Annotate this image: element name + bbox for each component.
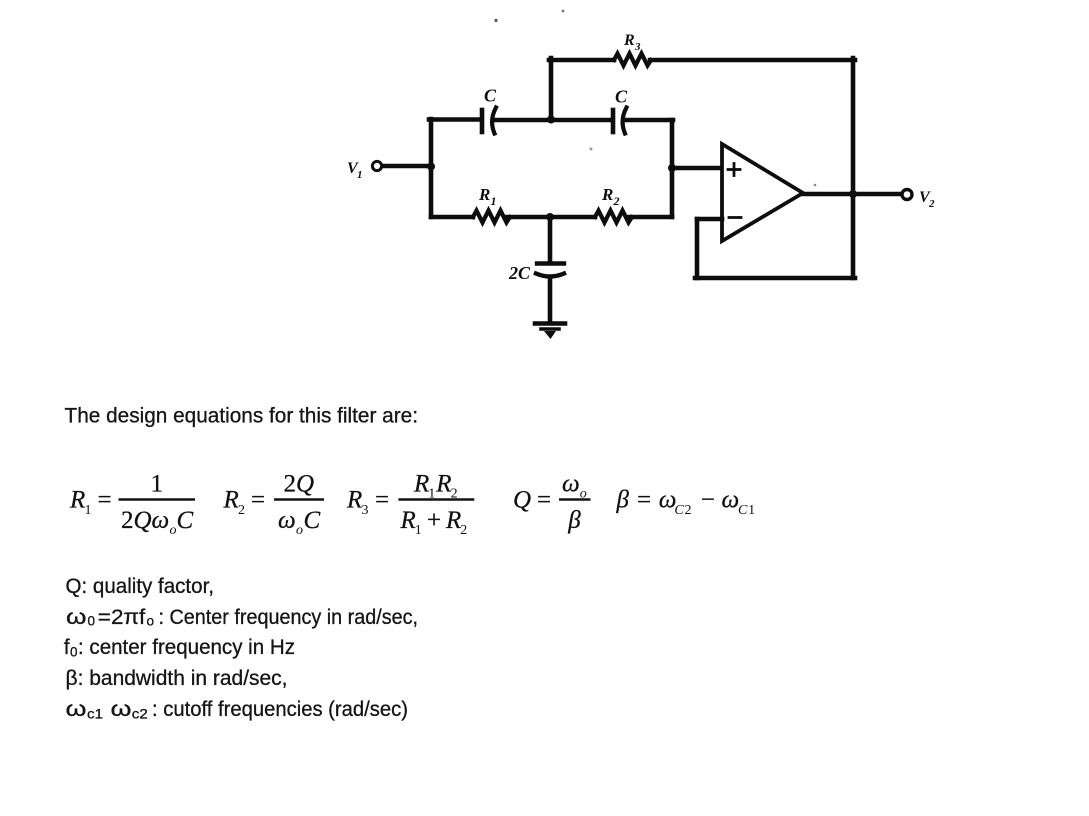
svg-text:β: β xyxy=(616,487,630,514)
svg-text:C: C xyxy=(738,503,748,518)
svg-text:1: 1 xyxy=(415,523,422,538)
svg-text:3: 3 xyxy=(634,41,641,53)
svg-text:ω: ω xyxy=(562,471,580,498)
svg-text:R: R xyxy=(223,487,239,514)
svg-text:=: = xyxy=(251,487,265,514)
svg-text:2C: 2C xyxy=(508,263,531,283)
svg-text:C: C xyxy=(177,507,194,534)
svg-text:The design equations for this: The design equations for this filter are… xyxy=(65,404,419,427)
svg-text:β: β xyxy=(567,507,581,534)
svg-text:=2πf: =2πf xyxy=(98,606,146,629)
svg-text:R: R xyxy=(601,185,613,204)
svg-text:R: R xyxy=(413,471,429,498)
svg-text:1: 1 xyxy=(491,194,497,208)
svg-text:o: o xyxy=(170,523,177,538)
svg-text:2: 2 xyxy=(121,507,134,534)
svg-text:: cutoff frequencies (rad/sec): : cutoff frequencies (rad/sec) xyxy=(152,698,408,721)
svg-text:Q: quality factor,: Q: quality factor, xyxy=(66,575,215,598)
svg-text:+: + xyxy=(427,507,441,534)
svg-text:o: o xyxy=(147,614,155,629)
svg-text:=: = xyxy=(637,487,651,514)
svg-text:2: 2 xyxy=(613,194,620,208)
svg-text:2: 2 xyxy=(685,503,692,518)
svg-text:0: 0 xyxy=(70,645,78,660)
svg-text:ω: ω xyxy=(66,606,87,629)
svg-text:C: C xyxy=(304,507,321,534)
svg-text:C: C xyxy=(484,86,497,106)
svg-text:3: 3 xyxy=(362,503,369,518)
svg-text:1: 1 xyxy=(428,487,435,502)
svg-text:R: R xyxy=(69,487,85,514)
svg-text:R: R xyxy=(435,471,451,498)
svg-text:R: R xyxy=(346,487,362,514)
svg-text:ω: ω xyxy=(111,698,132,721)
svg-text:Q: Q xyxy=(513,487,531,514)
svg-text:2: 2 xyxy=(928,198,935,210)
svg-text:Q: Q xyxy=(296,471,314,498)
svg-text:C: C xyxy=(615,87,628,107)
svg-text:R: R xyxy=(400,507,416,534)
svg-text:=: = xyxy=(537,487,551,514)
svg-text:β: bandwidth in rad/sec,: β: bandwidth in rad/sec, xyxy=(66,667,288,690)
svg-text:1: 1 xyxy=(85,503,92,518)
svg-text:1: 1 xyxy=(357,169,363,181)
svg-text:R: R xyxy=(623,32,635,49)
svg-text:=: = xyxy=(375,487,389,514)
svg-text:1: 1 xyxy=(151,471,164,498)
svg-text:2: 2 xyxy=(284,471,297,498)
svg-text:2: 2 xyxy=(238,503,245,518)
svg-text:ω: ω xyxy=(66,698,87,721)
svg-text:f: f xyxy=(64,636,70,659)
svg-text:: center frequency in Hz: : center frequency in Hz xyxy=(78,636,295,659)
svg-text:Qω: Qω xyxy=(134,507,170,534)
svg-text:o: o xyxy=(296,523,303,538)
svg-text:R: R xyxy=(478,185,490,204)
svg-text:0: 0 xyxy=(88,614,96,629)
svg-text:c1: c1 xyxy=(87,707,103,722)
svg-text:R: R xyxy=(445,507,461,534)
svg-text:−: − xyxy=(701,487,715,514)
svg-text:1: 1 xyxy=(748,503,755,518)
svg-text:: Center frequency in rad/sec,: : Center frequency in rad/sec, xyxy=(159,606,419,629)
svg-text:=: = xyxy=(98,487,112,514)
svg-text:2: 2 xyxy=(451,487,458,502)
svg-text:ω: ω xyxy=(722,487,740,514)
svg-text:2: 2 xyxy=(460,523,467,538)
svg-text:C: C xyxy=(674,503,684,518)
svg-text:o: o xyxy=(580,487,587,502)
svg-text:ω: ω xyxy=(278,507,296,534)
svg-text:c2: c2 xyxy=(132,707,148,722)
